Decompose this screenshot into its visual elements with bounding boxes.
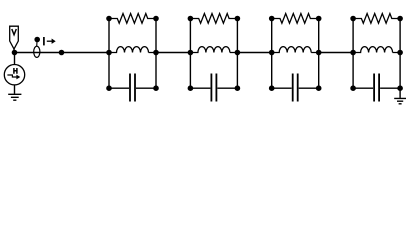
node top-right of cell 4 (397, 16, 403, 22)
wire: left vertical of cell 3 (271, 19, 273, 89)
node mid-left of cell 3 (269, 50, 275, 56)
wire: cell 4 bottom-right node to ground (399, 88, 401, 98)
inductor L1 on main line (109, 47, 156, 53)
capacitor C2 plates (211, 74, 216, 102)
wire: top branch left lead + resistor R4 zigzag (353, 14, 400, 24)
node bot-left of cell 3 (269, 85, 275, 91)
node on main wire (59, 50, 65, 56)
node top-left of cell 2 (188, 16, 194, 22)
node bot-right of cell 2 (235, 85, 241, 91)
wire: top branch left lead + resistor R2 zigzag (190, 14, 237, 24)
ground (right, at cell 4 output) (394, 98, 406, 103)
inductor L2 on main line (190, 47, 237, 53)
capacitor C1 plates (130, 74, 135, 102)
node top-right of cell 2 (235, 16, 241, 22)
node bot-right of cell 1 (153, 85, 159, 91)
node mid-left of cell 2 (188, 50, 194, 56)
wire: left vertical of cell 1 (108, 19, 110, 89)
wire: bottom branch to capacitor C4 (353, 87, 400, 89)
node bot-left of cell 2 (188, 85, 194, 91)
ground (source) (8, 94, 21, 100)
wire: main line segments between cells (156, 52, 353, 54)
node top-right of cell 1 (153, 16, 159, 22)
wire: right vertical of cell 3 (318, 19, 320, 89)
node top-left of cell 4 (350, 16, 356, 22)
wire: top branch left lead + resistor R3 zigzag (272, 14, 319, 24)
node bot-left of cell 4 (350, 85, 356, 91)
capacitor C4 plates (374, 74, 379, 102)
wire: left vertical of cell 2 (189, 19, 191, 89)
voltmeter probe V: flag symbol (10, 26, 19, 49)
wire: bottom branch to capacitor C3 (272, 87, 319, 89)
node top-left of cell 3 (269, 16, 275, 22)
wire: source bottom terminal to ground (14, 85, 16, 94)
wire: right vertical of cell 4 (399, 19, 401, 89)
node mid-right of cell 3 (316, 50, 322, 56)
wire: left vertical of cell 4 (352, 19, 354, 89)
wire: bottom branch to capacitor C2 (190, 87, 237, 89)
node: source / voltmeter junction (12, 50, 18, 56)
voltage source V1: circle with H and step arrow (4, 65, 24, 85)
inductor L4 on main line (353, 47, 400, 53)
node bot-right of cell 3 (316, 85, 322, 91)
node bot-right of cell 4 (397, 85, 403, 91)
wire: voltmeter tip to junction node (13, 49, 15, 53)
wire: junction down to source top terminal (14, 53, 16, 65)
node mid-right of cell 2 (235, 50, 241, 56)
node bot-left of cell 1 (106, 85, 112, 91)
wire: top branch left lead + resistor R1 zigzag (109, 14, 156, 24)
node mid-left of cell 1 (106, 50, 112, 56)
node top-right of cell 3 (316, 16, 322, 22)
wire: right vertical of cell 1 (155, 19, 157, 89)
node top-left of cell 1 (106, 16, 112, 22)
capacitor C3 plates (293, 74, 298, 102)
node mid-left of cell 4 (350, 50, 356, 56)
wire: right vertical of cell 2 (236, 19, 238, 89)
wire: main line from source junction to first cell (15, 52, 110, 54)
wire: bottom branch to capacitor C1 (109, 87, 156, 89)
node mid-right of cell 4 (397, 50, 403, 56)
current probe I: dot, stem, loop (34, 37, 40, 58)
label I with arrow (44, 37, 56, 45)
node mid-right of cell 1 (153, 50, 159, 56)
inductor L3 on main line (272, 47, 319, 53)
